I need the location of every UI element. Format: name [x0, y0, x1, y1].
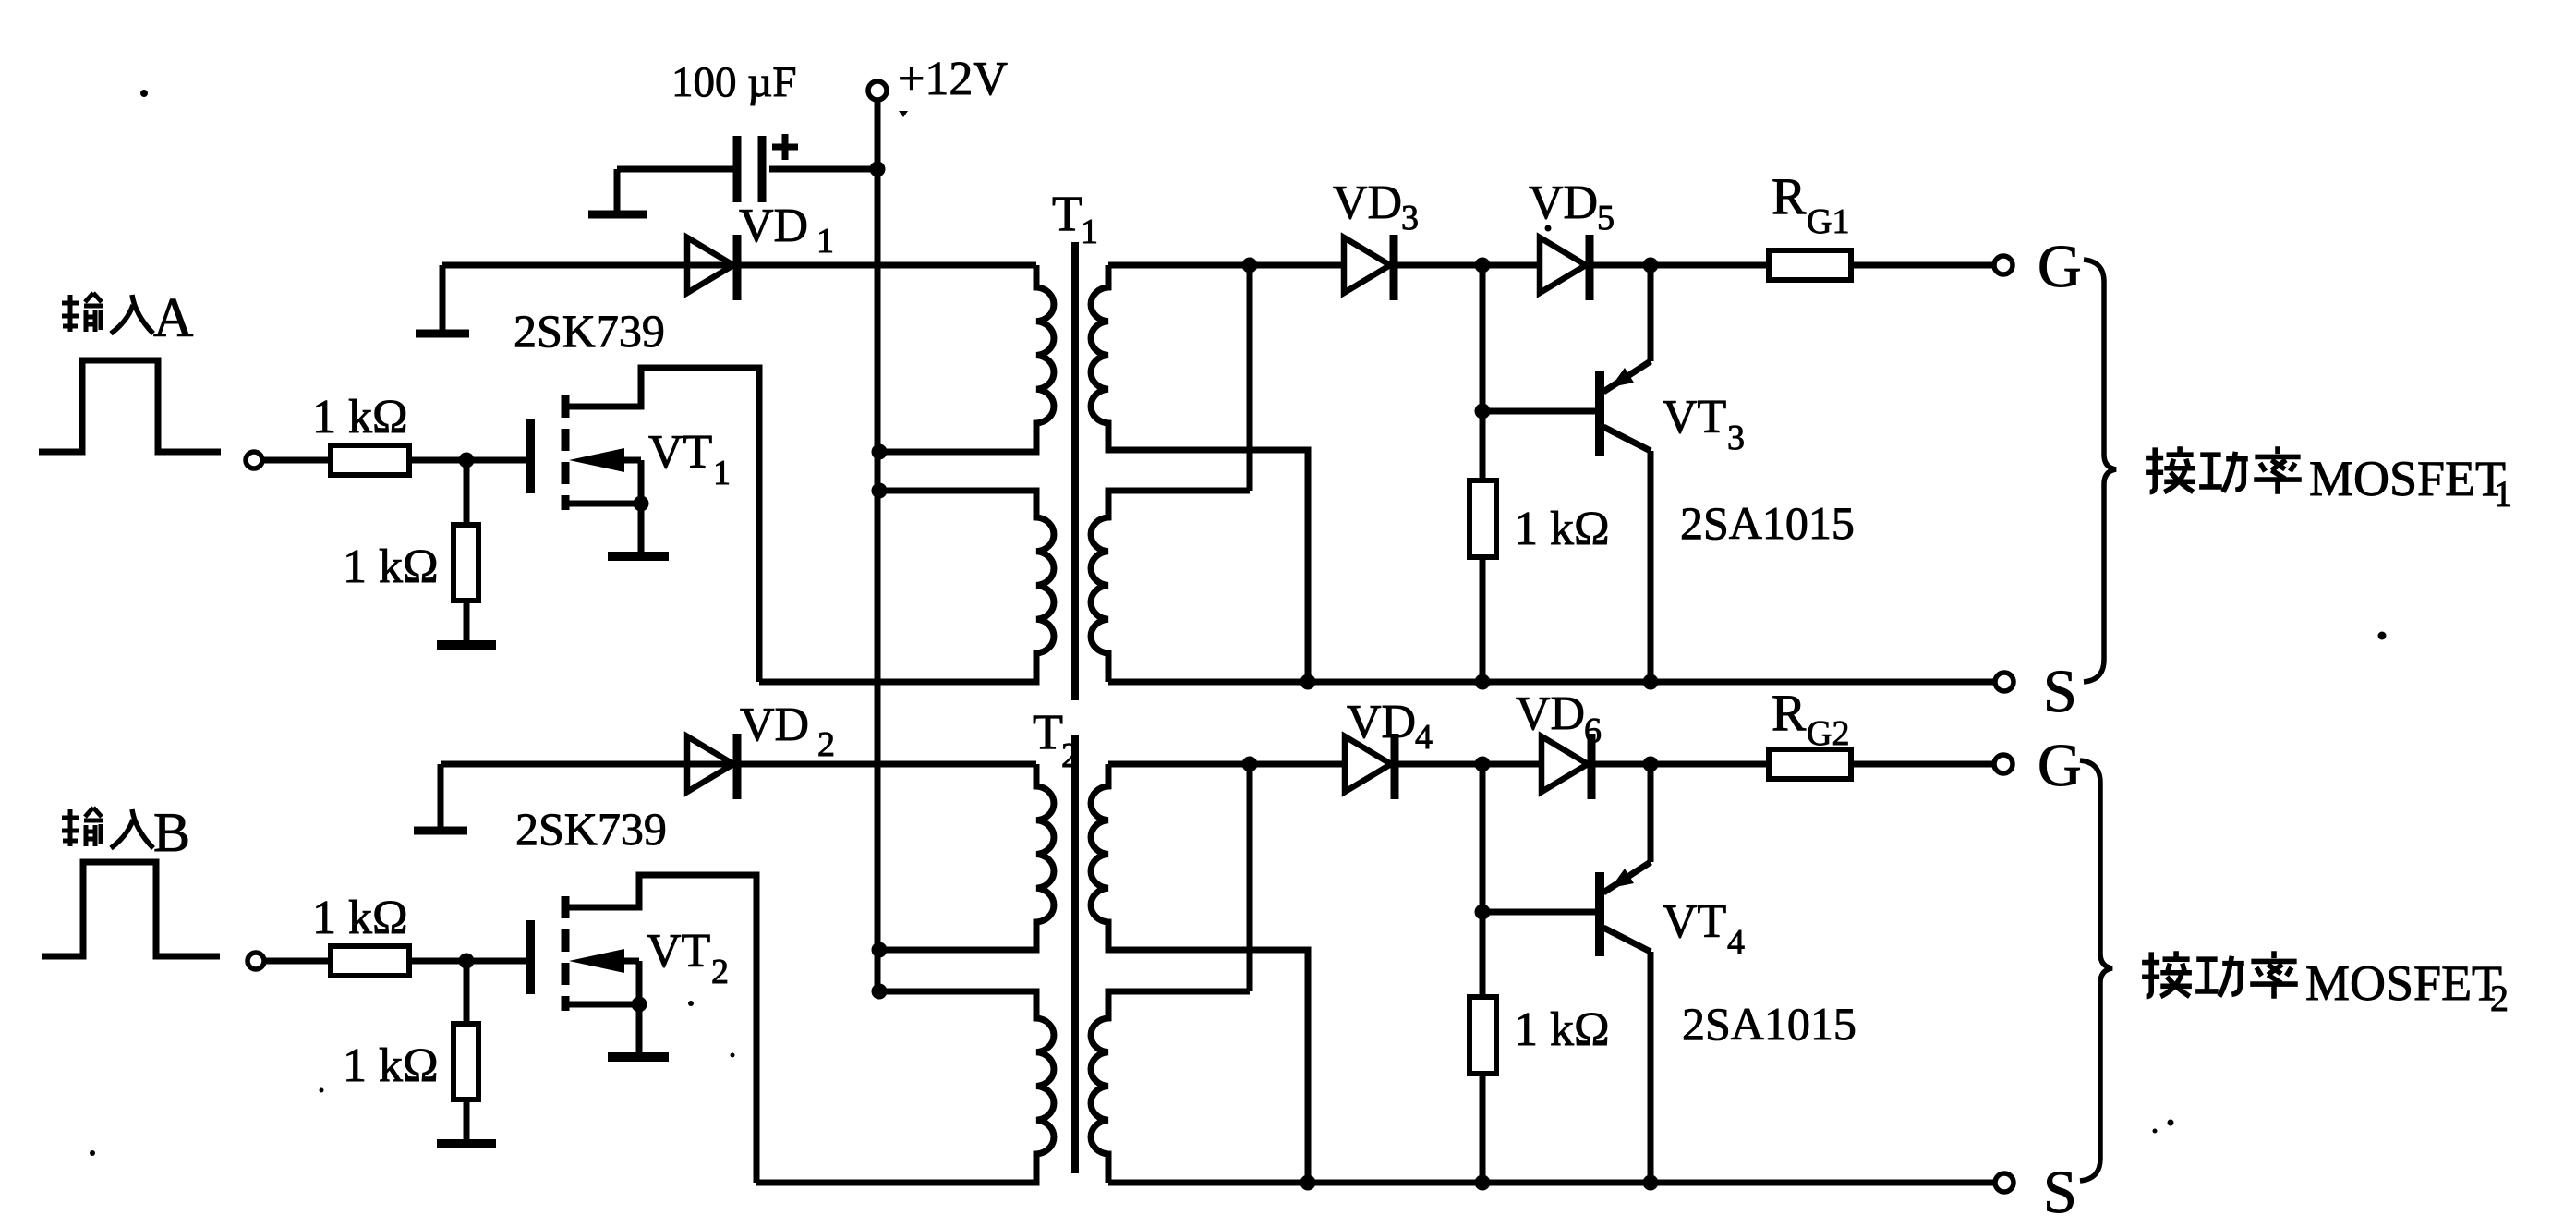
scan speck bottom right pair — [2153, 1129, 2158, 1134]
input terminal B — [248, 953, 264, 969]
label 输入A — [62, 287, 193, 348]
transformer T2 primary upper winding — [879, 764, 1054, 950]
wire input B to R — [264, 958, 331, 965]
wire T1 secondary to VD3 — [1108, 262, 1344, 269]
transistor VT2 2SK739 MOSFET — [530, 875, 756, 1183]
node S rail collector — [1643, 674, 1659, 690]
scan speck left — [320, 1088, 324, 1093]
transformer T2 secondary upper winding — [1091, 764, 1308, 1183]
+12V terminal — [868, 81, 887, 100]
label VD2 — [740, 699, 835, 764]
wire VD4 to VD6 — [1398, 761, 1542, 768]
svg-text:2: 2 — [1061, 736, 1079, 775]
transformer T2 core — [1071, 735, 1079, 1173]
wire R to gate VT1 — [409, 457, 526, 464]
ground (input B divider) — [437, 1139, 496, 1148]
diode VD4 — [1345, 734, 1395, 799]
scan speck bottom right — [2168, 1120, 2174, 1126]
wire T2 secondary link — [1247, 764, 1253, 991]
svg-text:+12V: +12V — [898, 53, 1008, 105]
wire VD3 to VD5 — [1397, 262, 1540, 269]
label RG2 — [1772, 685, 1849, 753]
svg-text:B: B — [153, 802, 190, 863]
node base junction (VT4) — [1475, 905, 1491, 920]
svg-text:VT: VT — [647, 925, 710, 978]
ground (VD1 anode) — [416, 330, 469, 338]
input pulse B waveform — [42, 862, 220, 956]
node T1 primary upper to rail — [872, 444, 888, 460]
svg-text:1: 1 — [2494, 473, 2512, 515]
svg-text:100 µF: 100 µF — [671, 58, 796, 106]
wire anode stub to ground — [438, 764, 444, 827]
wire S rail (channel 2) — [1108, 1180, 1996, 1186]
svg-text:2SA1015: 2SA1015 — [1682, 998, 1856, 1050]
svg-text:2SK739: 2SK739 — [515, 803, 667, 855]
wire R to gate VT2 — [409, 958, 526, 965]
node T2 primary lower to rail — [872, 984, 888, 1000]
node VD5 cathode junction — [1643, 258, 1659, 273]
wire S rail (channel 1) — [1108, 679, 1996, 686]
capacitor C1 100uF — [617, 134, 877, 202]
svg-text:1: 1 — [816, 222, 834, 261]
wire base VT3 — [1482, 408, 1596, 415]
transformer T1 primary upper winding — [879, 265, 1054, 452]
terminal S (channel 2) — [1995, 1173, 2014, 1192]
brace MOSFET2 — [2080, 760, 2112, 1181]
node gate B junction — [459, 954, 475, 969]
label VT1 — [648, 426, 731, 492]
wire VD6 to RG2 — [1595, 761, 1769, 768]
wire VT1 drain to T1 lower primary — [759, 679, 1036, 686]
svg-text:6: 6 — [1584, 711, 1602, 750]
label VD6 — [1516, 687, 1602, 750]
wire VD2 anode line — [441, 761, 1036, 768]
terminal G (channel 1) — [1994, 256, 2013, 274]
node VD4 cathode junction — [1475, 757, 1491, 772]
transformer T2 secondary lower winding — [1091, 991, 1250, 1183]
wire VD5 to RG1 — [1593, 262, 1769, 269]
transformer T1 secondary upper winding — [1091, 265, 1308, 682]
node base junction — [1475, 404, 1491, 419]
resistor 1k (pull-down, input A) — [454, 525, 478, 601]
ground (input A divider) — [437, 640, 496, 650]
wire VD1 anode line — [442, 262, 1036, 269]
svg-text:1 kΩ: 1 kΩ — [1514, 1003, 1610, 1056]
svg-text:2SK739: 2SK739 — [514, 305, 665, 357]
wire input A to R — [262, 457, 331, 464]
svg-text:VD: VD — [1347, 696, 1416, 748]
node gate A junction — [459, 453, 475, 468]
transformer T2 primary lower winding — [756, 991, 1054, 1183]
node T2 secondary to S rail — [1300, 1175, 1316, 1191]
diode VD2 — [687, 734, 737, 799]
wire node down — [464, 961, 470, 1024]
transformer T1 primary lower winding — [759, 491, 1054, 682]
svg-text:VT: VT — [1663, 391, 1726, 443]
scan speck near VD5 — [1545, 225, 1552, 232]
svg-text:G2: G2 — [1807, 714, 1849, 753]
wire VT2 drain to T2 lower primary — [756, 1180, 1036, 1186]
transistor VT1 2SK739 MOSFET — [530, 368, 759, 682]
svg-text:T: T — [1052, 186, 1082, 241]
wire T2 secondary to VD4 — [1108, 761, 1345, 768]
ground (VT1 source) — [608, 552, 669, 561]
svg-text:VD: VD — [1333, 176, 1402, 229]
ground (VT2 source) — [608, 1052, 669, 1062]
wire 1k bias upper (channel 2) — [1480, 764, 1486, 997]
label 接功率MOSFET2 — [2142, 951, 2509, 1019]
node T2 secondary top — [1242, 757, 1258, 772]
scan speck below +12V — [899, 111, 908, 117]
scan speck top left — [140, 90, 148, 97]
scan speck bottom left — [90, 1150, 95, 1156]
node T1 primary lower to rail — [872, 483, 888, 499]
wire 1k to S rail — [1480, 557, 1486, 682]
svg-text:1: 1 — [713, 454, 731, 492]
svg-text:S: S — [2043, 658, 2077, 725]
scan speck near VT2 ground — [731, 1053, 735, 1058]
label VT2 — [647, 925, 729, 991]
label 输入B — [62, 802, 190, 863]
wire anode stub to ground — [440, 265, 446, 330]
label T1 — [1052, 186, 1098, 251]
wire node down — [464, 460, 470, 525]
svg-text:G1: G1 — [1807, 202, 1849, 241]
diode VD6 — [1542, 734, 1591, 799]
transformer T1 secondary lower winding — [1091, 491, 1250, 682]
brace MOSFET1 — [2084, 260, 2116, 682]
svg-text:S: S — [2043, 1159, 2077, 1226]
resistor 1k (VT4 base) — [1469, 997, 1496, 1074]
node cap to rail — [870, 162, 886, 177]
svg-text:MOSFET: MOSFET — [2305, 955, 2502, 1011]
wire 1k bias upper — [1480, 265, 1486, 480]
svg-text:VT: VT — [648, 426, 712, 479]
node T2 primary upper to rail — [872, 942, 888, 958]
wire base VT4 — [1482, 909, 1596, 916]
scan speck right — [2378, 632, 2387, 640]
svg-text:VD: VD — [739, 200, 808, 252]
node VD3 cathode junction — [1475, 258, 1491, 273]
wire resistor to ground — [464, 601, 470, 644]
transformer T1 core — [1071, 242, 1079, 700]
svg-text:2SA1015: 2SA1015 — [1680, 497, 1855, 549]
label VT3 — [1663, 391, 1745, 457]
resistor 1k (pull-down, input B) — [454, 1024, 478, 1099]
svg-text:4: 4 — [1415, 718, 1433, 757]
svg-text:4: 4 — [1727, 923, 1745, 962]
node T1 secondary to S rail — [1300, 674, 1316, 690]
diode VD1 — [687, 235, 737, 300]
wire RG2 to G terminal — [1851, 761, 1995, 768]
resistor RG2 — [1769, 749, 1851, 779]
svg-text:VD: VD — [1529, 176, 1598, 229]
transistor VT3 2SA1015 — [1600, 265, 1651, 682]
resistor 1k (series, input B) — [331, 946, 409, 976]
label VT4 — [1663, 895, 1745, 962]
label VD5 — [1529, 176, 1615, 237]
svg-text:1 kΩ: 1 kΩ — [312, 391, 408, 443]
svg-text:1 kΩ: 1 kΩ — [1514, 503, 1610, 555]
wire RG1 to G terminal — [1851, 262, 1995, 269]
diode VD3 — [1344, 235, 1394, 300]
svg-text:2: 2 — [2490, 978, 2509, 1019]
input pulse A waveform — [39, 360, 221, 452]
svg-text:2: 2 — [711, 953, 729, 991]
svg-text:VD: VD — [1516, 687, 1585, 740]
node VD6 cathode junction — [1643, 757, 1659, 772]
resistor 1k (series, input A) — [331, 445, 409, 475]
svg-text:5: 5 — [1597, 199, 1615, 237]
input terminal A — [246, 452, 262, 468]
svg-text:2: 2 — [817, 725, 835, 764]
label VD3 — [1333, 176, 1419, 237]
svg-text:G: G — [2038, 732, 2082, 799]
svg-text:MOSFET: MOSFET — [2309, 451, 2506, 506]
label 接功率MOSFET1 — [2146, 446, 2512, 515]
svg-text:1 kΩ: 1 kΩ — [343, 1039, 439, 1092]
node T1 secondary top — [1242, 258, 1258, 273]
svg-text:A: A — [153, 287, 193, 348]
ground (VD2 anode) — [414, 827, 467, 835]
ground (capacitor) — [588, 211, 647, 219]
wire resistor to ground — [464, 1099, 470, 1143]
terminal S (channel 1) — [1995, 673, 2014, 691]
resistor 1k (VT3 base) — [1469, 480, 1496, 557]
wire T1 secondary link — [1247, 265, 1253, 491]
svg-text:3: 3 — [1727, 419, 1745, 457]
node S rail 1k — [1475, 674, 1491, 690]
transistor VT4 2SA1015 — [1600, 764, 1651, 1183]
node S2 rail 1k — [1475, 1175, 1491, 1191]
svg-text:1: 1 — [1081, 213, 1098, 251]
svg-text:R: R — [1772, 168, 1807, 225]
svg-text:1 kΩ: 1 kΩ — [312, 892, 408, 944]
label T2 — [1033, 704, 1079, 775]
svg-text:T: T — [1033, 704, 1063, 759]
scan speck near VT2 — [688, 1001, 694, 1006]
resistor RG1 — [1769, 250, 1851, 280]
label RG1 — [1772, 168, 1849, 241]
label VD1 — [739, 200, 834, 261]
svg-text:3: 3 — [1401, 199, 1419, 237]
svg-text:R: R — [1772, 685, 1807, 742]
label VD4 — [1347, 696, 1433, 757]
svg-text:VD: VD — [740, 699, 809, 751]
svg-text:G: G — [2038, 233, 2082, 300]
diode VD5 — [1540, 235, 1590, 300]
wire 1k to S rail (channel 2) — [1480, 1074, 1486, 1183]
node S2 rail collector — [1643, 1175, 1659, 1191]
terminal G (channel 2) — [1994, 755, 2013, 773]
svg-text:1 kΩ: 1 kΩ — [343, 541, 439, 593]
wire cap to ground — [614, 169, 621, 211]
wire +12V rail — [875, 100, 881, 991]
svg-text:VT: VT — [1663, 895, 1726, 948]
